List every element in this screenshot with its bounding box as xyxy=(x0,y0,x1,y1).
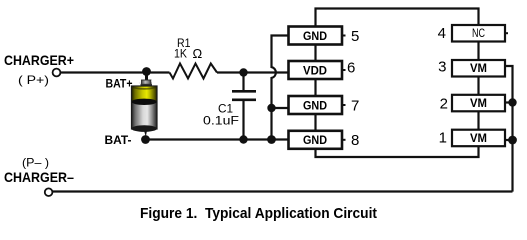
battery B1 xyxy=(131,74,157,137)
svg-text:Ω: Ω xyxy=(193,46,203,61)
wire CHARGER+ to R1 xyxy=(61,71,170,73)
svg-text:VM: VM xyxy=(470,96,487,110)
svg-text:(P– ): (P– ) xyxy=(22,156,49,170)
wire inter-box left column xyxy=(314,45,316,62)
svg-text:3: 3 xyxy=(438,59,446,76)
svg-text:VM: VM xyxy=(470,61,487,75)
svg-text:NC: NC xyxy=(472,26,485,40)
junction dot bus GND8 xyxy=(267,135,276,144)
junction dot battery top xyxy=(142,67,151,76)
junction dot bus GND7 xyxy=(267,104,275,112)
pin box NC 4 xyxy=(452,25,505,42)
pin box GND 7 xyxy=(289,96,343,114)
wire VM1 to bus xyxy=(505,139,513,141)
wire R1 to VDD pin xyxy=(217,71,290,73)
pin box VDD 6 xyxy=(289,61,343,79)
svg-text:4: 4 xyxy=(438,25,446,42)
wire inter-box right column xyxy=(477,41,479,60)
wire GND8 bottom to VM1 bottom xyxy=(316,146,479,157)
resistor R1 xyxy=(170,64,218,79)
pin box VM 3 xyxy=(452,60,505,77)
svg-text:BAT+: BAT+ xyxy=(106,77,133,91)
svg-text:2: 2 xyxy=(440,96,448,113)
wire BAT- to GND8 xyxy=(146,138,291,140)
svg-text:CHARGER+: CHARGER+ xyxy=(4,52,74,68)
wire top link GND5 to NC4 xyxy=(316,9,479,27)
svg-text:5: 5 xyxy=(351,28,359,45)
wire CHARGER- bottom xyxy=(53,190,513,192)
svg-text:( P+): ( P+) xyxy=(18,73,49,87)
svg-text:VM: VM xyxy=(470,131,487,145)
wire VM3 to right bus xyxy=(505,66,513,192)
svg-text:6: 6 xyxy=(347,59,355,76)
junction dot C1 bottom xyxy=(239,135,247,143)
pin box GND 8 xyxy=(289,131,343,149)
svg-text:1K: 1K xyxy=(174,47,187,61)
wire GND5 to left bus with hop over VDD wire xyxy=(272,36,289,140)
junction dot bus VM2 xyxy=(508,98,516,106)
junction dot C1 top xyxy=(239,68,247,76)
svg-text:BAT-: BAT- xyxy=(105,133,132,147)
node CHARGER- terminal xyxy=(45,188,53,196)
svg-text:GND: GND xyxy=(303,29,327,43)
svg-text:0.1uF: 0.1uF xyxy=(203,114,239,128)
junction dot battery bottom xyxy=(141,135,150,144)
svg-text:8: 8 xyxy=(351,132,359,149)
wire VM2 to bus xyxy=(505,101,513,103)
svg-text:7: 7 xyxy=(351,97,359,114)
svg-text:Figure 1. Typical Application: Figure 1. Typical Application Circuit xyxy=(140,205,377,222)
pin box GND 5 xyxy=(289,27,343,45)
svg-text:1: 1 xyxy=(439,130,447,147)
svg-text:GND: GND xyxy=(303,98,327,112)
junction dot bus VM1 xyxy=(508,136,517,145)
svg-text:GND: GND xyxy=(303,133,327,147)
pin box VM 2 xyxy=(452,95,505,112)
svg-text:CHARGER–: CHARGER– xyxy=(4,169,74,185)
svg-text:VDD: VDD xyxy=(303,63,327,77)
pin box VM 1 xyxy=(452,130,505,147)
node CHARGER+ terminal xyxy=(53,69,61,77)
wire bus to GND7 xyxy=(272,107,291,109)
capacitor C1 xyxy=(232,73,256,140)
